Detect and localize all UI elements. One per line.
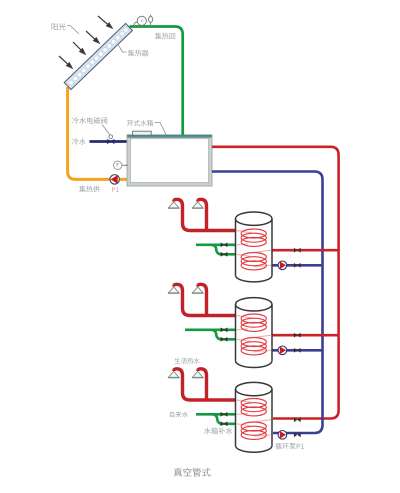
shower riser 2 tank 2 (red) wire (198, 284, 207, 315)
sun arrow 1 (59, 16, 112, 68)
circulation pump tank 2 (278, 346, 287, 355)
pump P1 (110, 175, 119, 184)
hot supply main (red) wire (212, 147, 339, 419)
shower head (192, 202, 203, 208)
shower head (192, 371, 203, 377)
cold water pipe (navy) wire (90, 140, 128, 143)
shower pipe group tank 1 (red) wire (174, 199, 236, 230)
shower riser 2 tank 3 (red) wire (198, 369, 207, 400)
storage tank 2 body (236, 298, 273, 368)
open tank body 开式水箱 (129, 137, 211, 185)
circulation pump tank 1 (278, 261, 287, 270)
label 生活热水 (175, 358, 200, 364)
sun arrow 4 (59, 56, 70, 66)
valve on make-up line tank 3 (221, 421, 224, 426)
tank cap (133, 131, 152, 135)
shower pipe group tank 3 (red) wire (174, 369, 236, 400)
storage tank 1 body (236, 212, 273, 282)
coil connectors tank 2 (237, 316, 272, 352)
shower riser 2 tank 1 (red) wire (198, 199, 207, 230)
make-up branch tank 2 (green) wire (212, 330, 236, 340)
gauge on collector outlet (134, 22, 138, 26)
tap water inlet tank 1 (green) wire (196, 244, 236, 247)
valve on tap inlet tank 3 (221, 412, 224, 417)
leader 冷水电磁阀 (102, 125, 110, 135)
coil connectors tank 1 (237, 231, 272, 267)
storage tank 2 outline (236, 298, 273, 368)
valve on tap inlet tank 1 (221, 242, 224, 247)
air vent on collector outlet (150, 22, 152, 27)
valve on tap inlet tank 2 (221, 327, 224, 332)
collector return pipe (green) wire (130, 27, 183, 137)
shower head (192, 287, 203, 293)
sun arrow 2 (86, 31, 97, 41)
title 真空管式 (174, 468, 211, 477)
valve on blue branch tank 3 (294, 432, 297, 437)
label 阳光 (52, 23, 66, 30)
return main (blue) wire (212, 172, 323, 434)
heat exchanger coils tank 3 (241, 399, 266, 440)
heat exchanger coils tank 1 (241, 229, 266, 270)
collector supply pipe (orange) wire (68, 87, 127, 179)
solar coil return tank 2 (blue) wire (272, 349, 323, 352)
shower pipe group tank 2 (red) wire (174, 284, 236, 315)
solar coil return tank 1 (blue) wire (272, 264, 323, 267)
thermometer on tank (122, 164, 129, 166)
tap water inlet tank 2 (green) wire (185, 328, 236, 331)
valve on red branch tank 2 (294, 333, 297, 338)
storage tank 1 outline (236, 212, 273, 282)
label 循环泵P1 (275, 443, 304, 450)
label 水箱补水 (204, 428, 232, 435)
label 冷水电磁阀 (72, 117, 107, 124)
label 集热供 (79, 186, 100, 193)
valve on make-up line tank 1 (221, 252, 224, 257)
valve on make-up line tank 2 (221, 337, 224, 342)
leader for 集热器 (118, 44, 127, 53)
leader for 阳光 (67, 26, 79, 35)
tap water inlet tank 3 (green) wire (196, 413, 236, 416)
valve on red branch tank 3 (294, 417, 297, 422)
tank water line (teal top) (127, 135, 211, 137)
heat exchanger coils tank 2 (241, 314, 266, 355)
storage tank 3 body (236, 382, 273, 452)
solenoid valve on cold water (107, 139, 111, 144)
valve on blue branch tank 2 (294, 348, 297, 353)
label 自来水 (170, 411, 188, 417)
make-up branch tank 1 (green) wire (212, 245, 236, 255)
coil connectors tank 3 (237, 400, 272, 436)
solar collector 集热器 (64, 23, 132, 89)
make-up branch tank 3 (green) wire (213, 414, 236, 424)
leader 开式水箱 (155, 123, 167, 135)
label 开式水箱 (127, 120, 153, 126)
valve on red branch tank 1 (294, 248, 297, 253)
label P1 (112, 187, 119, 192)
solar coil supply tank 2 (red) wire (272, 334, 339, 337)
shower head (168, 287, 179, 293)
solar coil supply tank 1 (red) wire (272, 249, 339, 252)
sun arrow 3 (73, 42, 83, 52)
valve on blue branch tank 1 (294, 263, 297, 268)
shower head (168, 202, 179, 208)
shower head (168, 371, 179, 377)
circulation pump tank 3 (278, 431, 287, 440)
label 集热回 (155, 33, 175, 40)
label 集热器 (128, 50, 149, 57)
label 冷水 (72, 138, 86, 145)
storage tank 3 outline (236, 382, 273, 452)
